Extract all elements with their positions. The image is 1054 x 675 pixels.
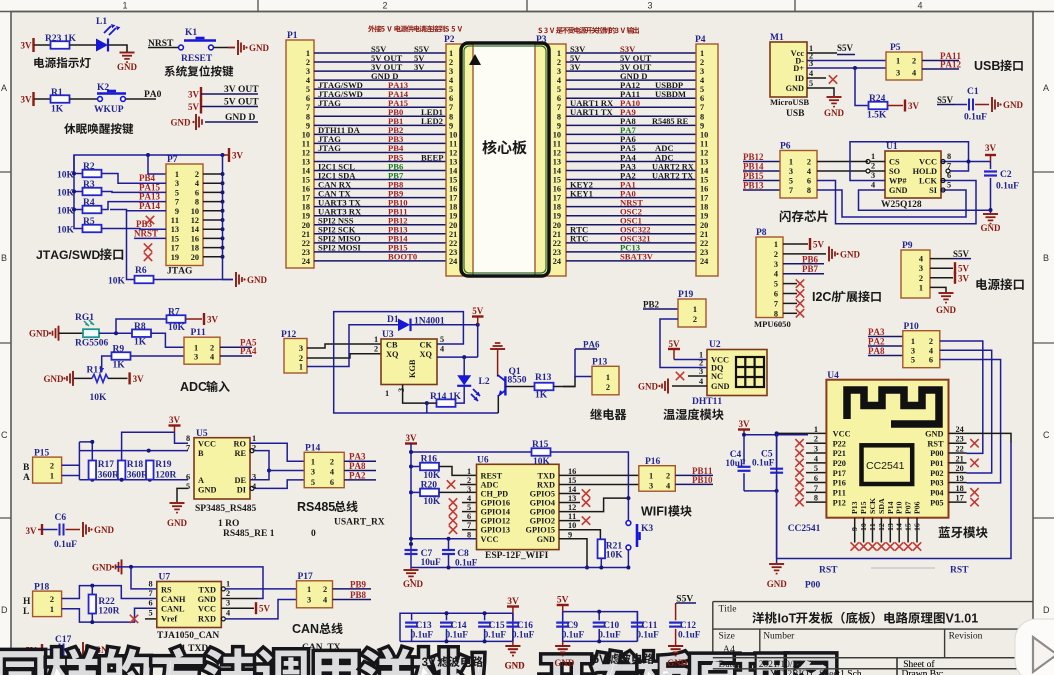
svg-text:Drawn By:: Drawn By: [902, 670, 944, 675]
svg-text:3V OUT: 3V OUT [224, 85, 259, 95]
svg-text:PA2: PA2 [868, 337, 885, 347]
svg-text:3V: 3V [985, 143, 997, 153]
svg-text:22: 22 [302, 239, 310, 248]
wire P9 pin2 to 3V [930, 277, 953, 279]
node junction C7 top [409, 542, 413, 546]
svg-text:RTC: RTC [570, 234, 588, 244]
svg-text:1: 1 [693, 305, 697, 314]
svg-text:10: 10 [302, 130, 310, 139]
svg-text:6: 6 [807, 177, 811, 186]
wire P3 pin 11 to P4 [566, 142, 696, 144]
svg-text:22: 22 [449, 239, 457, 248]
svg-text:17: 17 [171, 244, 179, 253]
svg-text:3V: 3V [21, 95, 33, 105]
svg-text:19: 19 [449, 212, 457, 221]
wire P7 right pin [203, 201, 223, 203]
svg-text:PB7: PB7 [802, 264, 819, 274]
wire U7 VCC to 5V [221, 607, 254, 609]
svg-text:4: 4 [323, 596, 327, 605]
svg-text:2: 2 [306, 58, 310, 67]
svg-text:6: 6 [330, 478, 334, 487]
power rail 5V (U7) [255, 602, 257, 614]
svg-text:0.1uF: 0.1uF [678, 631, 701, 641]
power rail 3V (out) [200, 87, 202, 101]
wire P3 pin 24 to P4 [566, 260, 696, 262]
svg-text:18: 18 [449, 203, 457, 212]
svg-text:1: 1 [649, 472, 653, 481]
svg-text:13: 13 [449, 157, 457, 166]
svg-text:8: 8 [807, 186, 811, 195]
svg-text:L2: L2 [479, 377, 490, 387]
wire S5V to C1 [955, 104, 967, 106]
svg-text:7: 7 [789, 186, 793, 195]
svg-text:0.1uF: 0.1uF [996, 182, 1019, 192]
resistor R18 360R [118, 461, 126, 480]
svg-text:5: 5 [306, 85, 310, 94]
svg-text:3: 3 [700, 67, 704, 76]
svg-text:12: 12 [553, 148, 561, 157]
wire P1 pin 9 to P2 [314, 124, 446, 126]
wire C1 to GND [975, 104, 989, 106]
node junction right bus [221, 255, 225, 259]
no-connect X U4 left pin5 [806, 472, 826, 474]
wire junction down to bottom loop [426, 403, 428, 413]
wire Q1 base to R13 [505, 386, 534, 388]
svg-text:17: 17 [553, 194, 561, 203]
svg-text:Vref: Vref [161, 615, 177, 624]
svg-text:120R: 120R [155, 471, 176, 481]
svg-text:CAN: CAN [292, 622, 319, 636]
svg-text:0.1uF: 0.1uF [54, 540, 77, 550]
svg-text:1: 1 [385, 389, 389, 398]
svg-text:Number: Number [763, 632, 795, 642]
svg-text:P12: P12 [833, 498, 846, 507]
resistor R4 10K [83, 206, 102, 214]
node junction A/R17 [90, 478, 94, 482]
svg-text:20: 20 [553, 221, 561, 230]
wire P1 pin 10 to P2 [314, 133, 446, 135]
svg-text:10K: 10K [90, 393, 108, 403]
svg-text:GPIO12: GPIO12 [481, 517, 511, 526]
wire RST link (faint) [871, 567, 935, 569]
wire U5 GND [177, 488, 188, 502]
svg-text:GPIO4: GPIO4 [530, 499, 555, 508]
svg-text:BEEP: BEEP [421, 152, 443, 162]
no-connect X U4 left pin4 [806, 462, 826, 464]
svg-text:9: 9 [449, 121, 453, 130]
svg-text:P6: P6 [780, 142, 791, 152]
svg-text:GND: GND [925, 430, 943, 439]
svg-text:1: 1 [700, 49, 704, 58]
wire RS riser [131, 567, 157, 589]
wire P3 pin 9 to P4 [566, 124, 696, 126]
svg-text:5: 5 [700, 85, 704, 94]
svg-text:21: 21 [700, 230, 708, 239]
chip U1 W25Q128 [885, 151, 941, 198]
wire P7 right pin [203, 237, 223, 239]
svg-text:3: 3 [896, 69, 900, 78]
wire P3 pin 19 to P4 [566, 215, 696, 217]
svg-text:2: 2 [871, 162, 875, 171]
wire U5 DI to P14 pin5 [250, 486, 254, 490]
svg-text:11: 11 [171, 216, 179, 225]
wire GND rail to U7 [116, 567, 263, 599]
ground (5V filter, over subtitle) [555, 645, 570, 647]
wire P3 pin 16 to P4 [566, 188, 696, 190]
wire P1 pin 8 to P2 [314, 115, 446, 117]
svg-text:0.1uF: 0.1uF [562, 631, 585, 641]
no-connect X U4 RST pin23 [949, 442, 967, 444]
svg-text:3: 3 [397, 388, 406, 392]
no-connect X U4 left pin7 [806, 491, 826, 493]
no-connect X U4 left pin6 [806, 482, 826, 484]
chip U2 DHT11 [707, 350, 767, 396]
svg-text:1.5K: 1.5K [867, 111, 887, 121]
svg-text:3: 3 [467, 485, 471, 494]
power rail 3V (JTAG) [223, 154, 229, 156]
svg-text:14: 14 [553, 167, 561, 176]
svg-text:SP3485_RS485: SP3485_RS485 [195, 504, 256, 514]
node junction C4 top [742, 433, 746, 437]
ground (K1) [237, 40, 239, 55]
svg-text:Title: Title [719, 605, 737, 615]
ground (3V filter, over subtitle) [505, 645, 520, 647]
svg-text:360R: 360R [127, 471, 148, 481]
svg-text:PB15: PB15 [743, 171, 764, 181]
svg-text:17: 17 [700, 194, 708, 203]
svg-text:DI: DI [237, 486, 246, 495]
svg-text:R4: R4 [83, 198, 95, 208]
svg-text:4: 4 [807, 167, 811, 176]
svg-text:16: 16 [302, 185, 310, 194]
svg-text:10K: 10K [57, 189, 75, 199]
ground (U4) [769, 563, 784, 565]
svg-text:UART1 TX: UART1 TX [570, 107, 614, 117]
svg-text:CANL: CANL [161, 605, 185, 614]
resistor R19 120R [146, 461, 154, 480]
svg-text:0.1uF: 0.1uF [411, 631, 434, 641]
power rail 3V (wake button) [32, 92, 34, 106]
wire bottom rail to GND symbol [776, 559, 778, 564]
wire R5 to PB3 net [102, 228, 167, 231]
video subtitle text (clipped at bottom) [0, 651, 44, 675]
svg-text:ADC: ADC [481, 480, 499, 489]
no-connect X U6 GPIO4 [559, 502, 580, 504]
svg-text:11: 11 [868, 523, 877, 531]
wire K1 to GND [214, 47, 236, 49]
svg-text:GPIO0: GPIO0 [530, 508, 555, 517]
svg-text:P11: P11 [191, 328, 207, 338]
wire P15 pin2 (B) [62, 464, 80, 466]
connector P10 [903, 331, 940, 368]
wire P14 to PA3 [344, 460, 376, 462]
svg-text:GND: GND [786, 84, 804, 93]
power rail 5V (out) [200, 100, 202, 114]
wire P7 right pin [203, 256, 223, 258]
ground (P8) [828, 246, 830, 261]
svg-text:P10: P10 [904, 322, 920, 332]
svg-text:SDA: SDA [877, 498, 886, 514]
svg-text:USART_RX: USART_RX [334, 518, 385, 528]
svg-text:2: 2 [557, 58, 561, 67]
svg-text:5V: 5V [669, 339, 681, 349]
svg-text:1: 1 [306, 49, 310, 58]
node junction D1/5V [476, 323, 480, 327]
svg-text:GND D: GND D [225, 113, 255, 123]
wire NRST stub [134, 237, 166, 239]
svg-text:P1: P1 [287, 31, 298, 41]
wire U4 GND pin24 [967, 433, 1012, 443]
wire P3 pin 6 to P4 [566, 97, 696, 99]
ground (JTAG) [235, 272, 237, 287]
wire R11 to 3V [108, 377, 128, 379]
wire D+ to R24 [855, 68, 869, 106]
wire P3 pin 18 to P4 [566, 206, 696, 208]
wire R8 to P11 pin1 [151, 333, 184, 347]
svg-text:6: 6 [149, 599, 153, 608]
svg-text:RXD: RXD [537, 480, 555, 489]
svg-text:R23 1K: R23 1K [45, 34, 76, 44]
no-connect X P8 pin8 [783, 312, 797, 314]
node junction XQ/L2 [462, 355, 466, 359]
svg-text:4: 4 [330, 468, 334, 477]
svg-text:CB: CB [386, 341, 398, 350]
svg-text:1: 1 [774, 240, 778, 249]
svg-text:BOOT0: BOOT0 [388, 252, 417, 262]
no-connect X U6 GPIO2 [559, 520, 580, 522]
svg-text:6: 6 [557, 94, 561, 103]
svg-text:8: 8 [149, 580, 153, 589]
svg-text:3: 3 [911, 347, 915, 356]
node junction right bus [221, 236, 225, 240]
svg-text:8: 8 [306, 112, 310, 121]
wire U3 XQ out to LED riser [437, 356, 478, 358]
label 电源接口 [976, 278, 987, 290]
svg-text:Date:: Date: [719, 660, 740, 670]
wire U4 P00 stub [949, 452, 967, 454]
wire 3V to U4 VCC [744, 434, 808, 436]
svg-text:7: 7 [449, 103, 453, 112]
svg-text:C2: C2 [1000, 170, 1012, 180]
svg-text:4: 4 [210, 353, 214, 362]
wire LED to GND [109, 45, 128, 52]
wire U6 RXD to P16 pin3 [559, 483, 639, 485]
wire P9 pin1 to GND [930, 287, 946, 292]
svg-text:GND: GND [198, 595, 216, 604]
wire pullup stub [74, 209, 83, 211]
no-connect X P8 pin6 [783, 293, 797, 295]
capacitor C14 0.1uF [446, 613, 448, 620]
svg-text:R16: R16 [421, 455, 438, 465]
svg-text:19: 19 [956, 474, 964, 483]
svg-text:16: 16 [700, 185, 708, 194]
svg-text:REST: REST [481, 471, 503, 480]
wire riser to P7 pin1 [148, 155, 166, 174]
svg-text:5: 5 [557, 85, 561, 94]
svg-text:12: 12 [302, 148, 310, 157]
wire U6 GPIO15 to R21 [559, 530, 600, 540]
wire U6 VCC row [411, 538, 477, 540]
svg-text:6: 6 [700, 94, 704, 103]
svg-text:6: 6 [306, 94, 310, 103]
wire U4 left rail down [776, 433, 778, 558]
no-connect X P8 pin7 [783, 302, 797, 304]
ground (Q1 collector) [490, 348, 505, 350]
power rail 3V (R7) [203, 313, 205, 325]
svg-text:RST: RST [950, 566, 969, 576]
wire junction to P14 pin3 [269, 470, 304, 472]
svg-text:5: 5 [449, 85, 453, 94]
svg-text:3: 3 [557, 67, 561, 76]
power rail 3V (R11) [128, 372, 130, 384]
svg-text:A: A [1, 83, 7, 93]
svg-text:TXD: TXD [537, 471, 555, 480]
svg-text:3V: 3V [188, 90, 200, 100]
video player next overlay [1015, 619, 1054, 675]
svg-text:3V: 3V [908, 101, 920, 111]
svg-text:0.1uF: 0.1uF [484, 631, 507, 641]
svg-text:P21: P21 [833, 449, 846, 458]
svg-text:18: 18 [302, 203, 310, 212]
wire C4 bottom join [744, 490, 777, 492]
wire R15 pull-up to P16 net [411, 451, 532, 453]
no-connect X U4 bottom pins [851, 542, 859, 550]
core board border [461, 43, 549, 276]
svg-text:4: 4 [871, 181, 875, 190]
wire P14 to PA8 [344, 470, 376, 472]
svg-text:USB: USB [786, 109, 805, 119]
power rail 3V (P9) [954, 272, 956, 284]
power rail 5V (P9) [954, 262, 956, 274]
ground (5V filter) [562, 641, 564, 645]
svg-text:24: 24 [553, 257, 561, 266]
svg-text:10K: 10K [423, 497, 441, 507]
resistor R7 10K [167, 315, 186, 323]
svg-text:9: 9 [568, 530, 572, 539]
wire U5 RO to P14 pin1 [250, 443, 304, 461]
svg-text:SPI2 MOSI: SPI2 MOSI [318, 243, 361, 253]
wire P7 right pin [203, 247, 223, 249]
svg-text:5: 5 [774, 280, 778, 289]
svg-text:16: 16 [553, 185, 561, 194]
svg-text:1: 1 [299, 363, 303, 372]
svg-text:GPIO14: GPIO14 [481, 508, 511, 517]
svg-text:GND: GND [92, 562, 113, 572]
svg-text:11: 11 [302, 139, 310, 148]
label S3V是不受电源开关控制的3V输出 [538, 28, 542, 34]
svg-text:23: 23 [302, 248, 310, 257]
wire P3 pin 15 to P4 [566, 179, 696, 181]
no-connect X U7 Vref [145, 618, 157, 620]
svg-text:18: 18 [956, 484, 964, 493]
svg-text:21: 21 [956, 454, 964, 463]
svg-text:17: 17 [956, 494, 964, 503]
resistor R15 10K [532, 448, 551, 456]
svg-text:CH_PD: CH_PD [481, 490, 509, 499]
svg-text:2: 2 [700, 58, 704, 67]
resistor R3 10K [83, 188, 102, 196]
svg-text:RS: RS [161, 586, 172, 595]
svg-text:3: 3 [699, 367, 703, 376]
svg-text:13: 13 [886, 523, 895, 531]
svg-text:13: 13 [700, 157, 708, 166]
svg-text:R5: R5 [83, 217, 95, 227]
sheet title text [752, 612, 764, 624]
node junction right bus [221, 218, 225, 222]
capacitor C1 0.1uF [968, 99, 970, 111]
ground (P9) [939, 292, 954, 294]
wire R9 to R11 wiper [102, 356, 112, 372]
svg-text:1K: 1K [134, 338, 147, 348]
wire P9 pin3 to 5V [930, 267, 953, 269]
wire U4 P02 stub [949, 472, 967, 474]
svg-text:P15: P15 [859, 501, 868, 514]
connector P4 [696, 44, 718, 276]
svg-text:0.1uF: 0.1uF [512, 631, 535, 641]
svg-text:GND: GND [824, 108, 845, 118]
wire 3V OUT [201, 93, 258, 95]
svg-text:5: 5 [809, 79, 813, 88]
svg-text:R3: R3 [83, 180, 95, 190]
svg-text:GND: GND [638, 382, 659, 392]
connector P3 body [535, 44, 566, 276]
svg-text:1: 1 [449, 49, 453, 58]
wire P18 pin2 to R22 top / CANH [62, 586, 157, 599]
svg-text:7: 7 [306, 103, 310, 112]
svg-text:5: 5 [175, 188, 179, 197]
svg-text:U4: U4 [827, 371, 839, 381]
svg-text:5: 5 [149, 609, 153, 618]
wire A net to U5 [79, 479, 188, 481]
svg-text:P3: P3 [536, 35, 547, 45]
svg-text:10: 10 [568, 521, 576, 530]
svg-text:P11: P11 [833, 489, 846, 498]
svg-text:2: 2 [693, 315, 697, 324]
chip U7 TJA1050 [157, 582, 222, 628]
connector P6 [780, 151, 817, 199]
svg-text:21: 21 [302, 230, 310, 239]
no-connect X U2 NC [688, 375, 707, 377]
svg-text:22: 22 [700, 239, 708, 248]
resistor R22 120R [91, 586, 93, 595]
ground (M1) [827, 96, 842, 98]
svg-text:6: 6 [467, 512, 471, 521]
svg-text:8: 8 [557, 112, 561, 121]
no-connect X U6 pin7 [462, 529, 477, 531]
svg-text:PB14: PB14 [743, 162, 764, 172]
capacitor C10 0.1uF [598, 612, 600, 621]
wire P1 pin 12 to P2 [314, 151, 446, 153]
svg-text:13: 13 [553, 157, 561, 166]
svg-text:P16: P16 [645, 457, 661, 467]
svg-text:USBDM: USBDM [655, 89, 686, 99]
wire U1 SI to P6 pin8 [817, 190, 966, 217]
ground (LED) [120, 52, 135, 54]
svg-text:19: 19 [700, 212, 708, 221]
svg-text:3V: 3V [422, 657, 436, 669]
chip U6 ESP-12F [477, 464, 560, 549]
svg-text:KEY1: KEY1 [570, 188, 593, 198]
wire U1 GND loop [859, 190, 991, 210]
wire P7 right pin [203, 191, 223, 193]
svg-text:R5485 RE: R5485 RE [652, 117, 689, 126]
node junction R22 bottom [90, 620, 94, 624]
ground (C6) [82, 522, 84, 537]
svg-text:GND: GND [767, 579, 788, 589]
chip U5 SP3485 [194, 438, 250, 499]
svg-text:R2: R2 [83, 162, 95, 172]
svg-text:D+: D+ [793, 64, 804, 73]
